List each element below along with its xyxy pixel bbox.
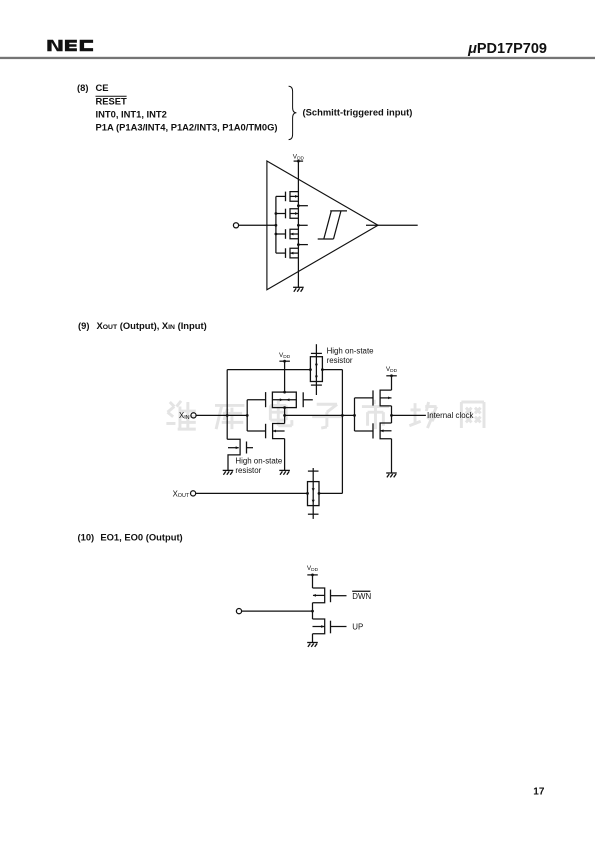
svg-text:UP: UP — [352, 623, 363, 632]
svg-text:μPD17P709: μPD17P709 — [467, 41, 547, 57]
svg-text:(Schmitt-triggered input): (Schmitt-triggered input) — [303, 106, 413, 117]
svg-text:High on-state: High on-state — [235, 456, 283, 465]
svg-text:(8): (8) — [77, 82, 88, 93]
svg-text:(9): (9) — [78, 320, 89, 331]
svg-text:(10): (10) — [78, 532, 95, 543]
svg-text:EO1, EO0 (Output): EO1, EO0 (Output) — [100, 532, 182, 543]
svg-text:INT0, INT1, INT2: INT0, INT1, INT2 — [96, 108, 167, 119]
svg-text:RESET: RESET — [96, 95, 128, 106]
svg-text:DWN: DWN — [352, 592, 371, 601]
svg-text:resistor: resistor — [327, 356, 353, 365]
svg-text:CE: CE — [96, 82, 109, 93]
svg-text:Internal clock: Internal clock — [427, 411, 474, 420]
svg-text:resistor: resistor — [235, 466, 261, 475]
svg-text:17: 17 — [533, 786, 545, 797]
svg-text:High on-state: High on-state — [327, 347, 375, 356]
svg-text:P1A (P1A3/INT4, P1A2/INT3, P1A: P1A (P1A3/INT4, P1A2/INT3, P1A0/TM0G) — [96, 122, 278, 133]
